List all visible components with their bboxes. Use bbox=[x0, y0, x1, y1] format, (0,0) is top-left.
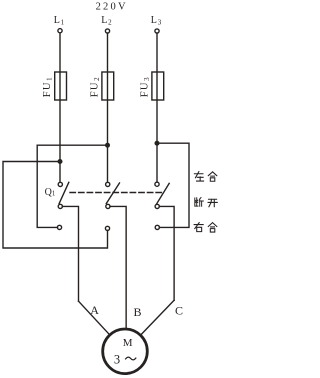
switch pole 1 blade bbox=[59, 182, 69, 203]
switch pole 2 blade bbox=[106, 183, 119, 204]
switch pole 2 top contact bbox=[106, 182, 110, 186]
fuse FU1 bbox=[55, 72, 67, 100]
switch pole 3 pivot bbox=[155, 204, 159, 208]
svg-text:C: C bbox=[175, 303, 183, 317]
node L1 label bbox=[54, 15, 65, 27]
motor M1 three-phase bbox=[103, 329, 148, 374]
terminal L3 bbox=[155, 29, 159, 33]
label 220V supply bbox=[96, 2, 128, 13]
fuse FU3 bbox=[152, 72, 164, 100]
wire L1 feed to pole2 reverse contact via left rail bbox=[3, 162, 108, 249]
switch Q1 label bbox=[45, 187, 56, 198]
wire pole 1 output bbox=[62, 206, 78, 301]
junction dot L3 bbox=[155, 141, 159, 145]
label C bbox=[175, 303, 183, 317]
wire pole 3 output bbox=[159, 206, 174, 300]
position label left-close bbox=[194, 172, 216, 182]
svg-text:B: B bbox=[134, 305, 142, 319]
node L2 label bbox=[101, 15, 112, 27]
wire L3 vertical bbox=[156, 33, 158, 182]
svg-text:A: A bbox=[90, 303, 99, 317]
fuse FU2 bbox=[102, 72, 114, 100]
wire L3 feed to pole3 reverse contact: right loop bbox=[157, 143, 189, 227]
switch linkage dashed bar bbox=[70, 192, 164, 194]
svg-text:220V: 220V bbox=[96, 2, 128, 13]
wire L1 vertical bbox=[59, 33, 61, 183]
switch pole 1 lower contact bbox=[57, 225, 61, 229]
fuse FU2 label bbox=[90, 76, 102, 97]
wire pole 2 output bbox=[110, 206, 126, 328]
label A bbox=[90, 303, 99, 317]
position label right-close bbox=[194, 223, 217, 232]
position label open bbox=[195, 198, 217, 207]
switch pole 3 blade bbox=[157, 183, 169, 203]
fuse FU3 label bbox=[140, 76, 152, 97]
wire phase A diagonal to motor bbox=[79, 301, 110, 334]
svg-text:M: M bbox=[123, 337, 133, 349]
label B bbox=[134, 305, 142, 319]
switch pole 3 top contact bbox=[155, 182, 159, 186]
terminal L1 bbox=[58, 29, 62, 33]
svg-text:3: 3 bbox=[114, 353, 120, 367]
switch pole 1 pivot bbox=[58, 204, 62, 208]
node L3 label bbox=[151, 15, 162, 27]
fuse FU1 label bbox=[42, 76, 54, 97]
wire L2 feed to pole1 reverse contact: horizontal bbox=[37, 145, 107, 227]
junction dot L2 bbox=[106, 143, 110, 147]
switch pole 2 pivot bbox=[106, 204, 110, 208]
switch pole 1 top contact bbox=[58, 182, 62, 186]
wire phase C diagonal to motor bbox=[141, 300, 174, 334]
switch pole 2 lower contact bbox=[105, 226, 109, 230]
junction dot L1 bbox=[58, 160, 62, 164]
terminal L2 bbox=[105, 29, 109, 33]
switch pole 3 lower contact bbox=[155, 225, 159, 229]
wire L2 vertical bbox=[107, 33, 109, 182]
